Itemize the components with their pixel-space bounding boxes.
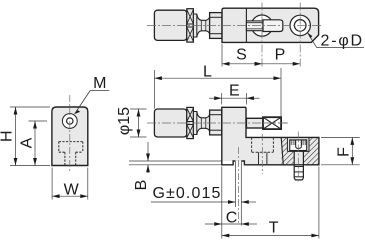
svg-text:B: B	[133, 180, 150, 191]
screw centerline	[297, 132, 299, 184]
vertical centerline left hole	[261, 3, 263, 67]
vertical centerline right hole	[299, 3, 301, 67]
washer+neck+shaft (top view)	[193, 14, 209, 37]
svg-text:S: S	[236, 46, 247, 63]
centerline (side view)	[69, 95, 71, 171]
dim T	[222, 167, 319, 239]
leader 2-phiD	[308, 33, 364, 50]
body outline (front view) with bottom notch and G slot gap	[222, 107, 319, 165]
dim E	[209, 83, 260, 105]
body (top view) with chamfer bottom-right	[222, 8, 319, 42]
knurl (front view)	[187, 107, 194, 138]
dim F	[321, 137, 360, 164]
centerline horizontal top view	[147, 25, 322, 27]
slot centerline vertical x239	[238, 147, 240, 223]
dim W (side view)	[52, 168, 88, 200]
collar nut (front view)	[210, 110, 222, 135]
centerline horizontal front view	[147, 122, 288, 124]
svg-text:P: P	[275, 46, 286, 63]
svg-text:M: M	[93, 75, 106, 92]
pin rod through hole (top view)	[246, 20, 282, 32]
svg-text:E: E	[229, 83, 240, 100]
hidden T-slot dashed (side view)	[59, 142, 83, 165]
svg-text:L: L	[203, 64, 212, 81]
svg-text:2-φD: 2-φD	[321, 33, 364, 50]
dim B	[129, 142, 222, 190]
collar nut (top view)	[210, 13, 222, 39]
screw head (front view)	[290, 140, 307, 151]
dim G	[151, 162, 256, 226]
dim C	[205, 167, 257, 239]
hidden pocket dashed (front view)	[252, 137, 274, 152]
M hole circles	[62, 114, 77, 129]
svg-text:C: C	[226, 210, 238, 227]
dim A (side view)	[19, 121, 47, 166]
section break line	[281, 137, 283, 164]
left hole circle (top view)	[251, 15, 272, 36]
pin tip X-box (front view)	[263, 117, 287, 129]
pin rod (front view)	[246, 118, 263, 128]
body (side view)	[52, 107, 88, 166]
knob (front view)	[154, 109, 186, 137]
svg-text:F: F	[336, 147, 353, 157]
knurl (top view)	[187, 9, 194, 42]
svg-text:T: T	[269, 220, 279, 237]
svg-text:H: H	[0, 130, 16, 142]
dim L	[154, 64, 281, 117]
hole centerline vertical x262	[261, 134, 263, 174]
svg-text:W: W	[64, 182, 80, 199]
knob (top view)	[154, 10, 186, 40]
screw shank and thread	[294, 151, 303, 180]
inner hole lines below pocket	[258, 152, 260, 165]
svg-text:G±0.015: G±0.015	[153, 185, 222, 202]
washer+neck+shaft (front view)	[193, 112, 209, 135]
svg-text:A: A	[19, 137, 36, 148]
counterbore walls	[287, 138, 309, 151]
svg-text:φ15: φ15	[116, 107, 133, 135]
hatch regions	[282, 137, 319, 164]
dim H (side view)	[0, 107, 50, 166]
dim S P (top view)	[222, 44, 300, 67]
dim phi15	[116, 107, 147, 137]
right hole 2-phiD (top view)	[290, 15, 310, 35]
M label and leader	[75, 75, 110, 114]
step edge line (top view)	[245, 8, 247, 42]
